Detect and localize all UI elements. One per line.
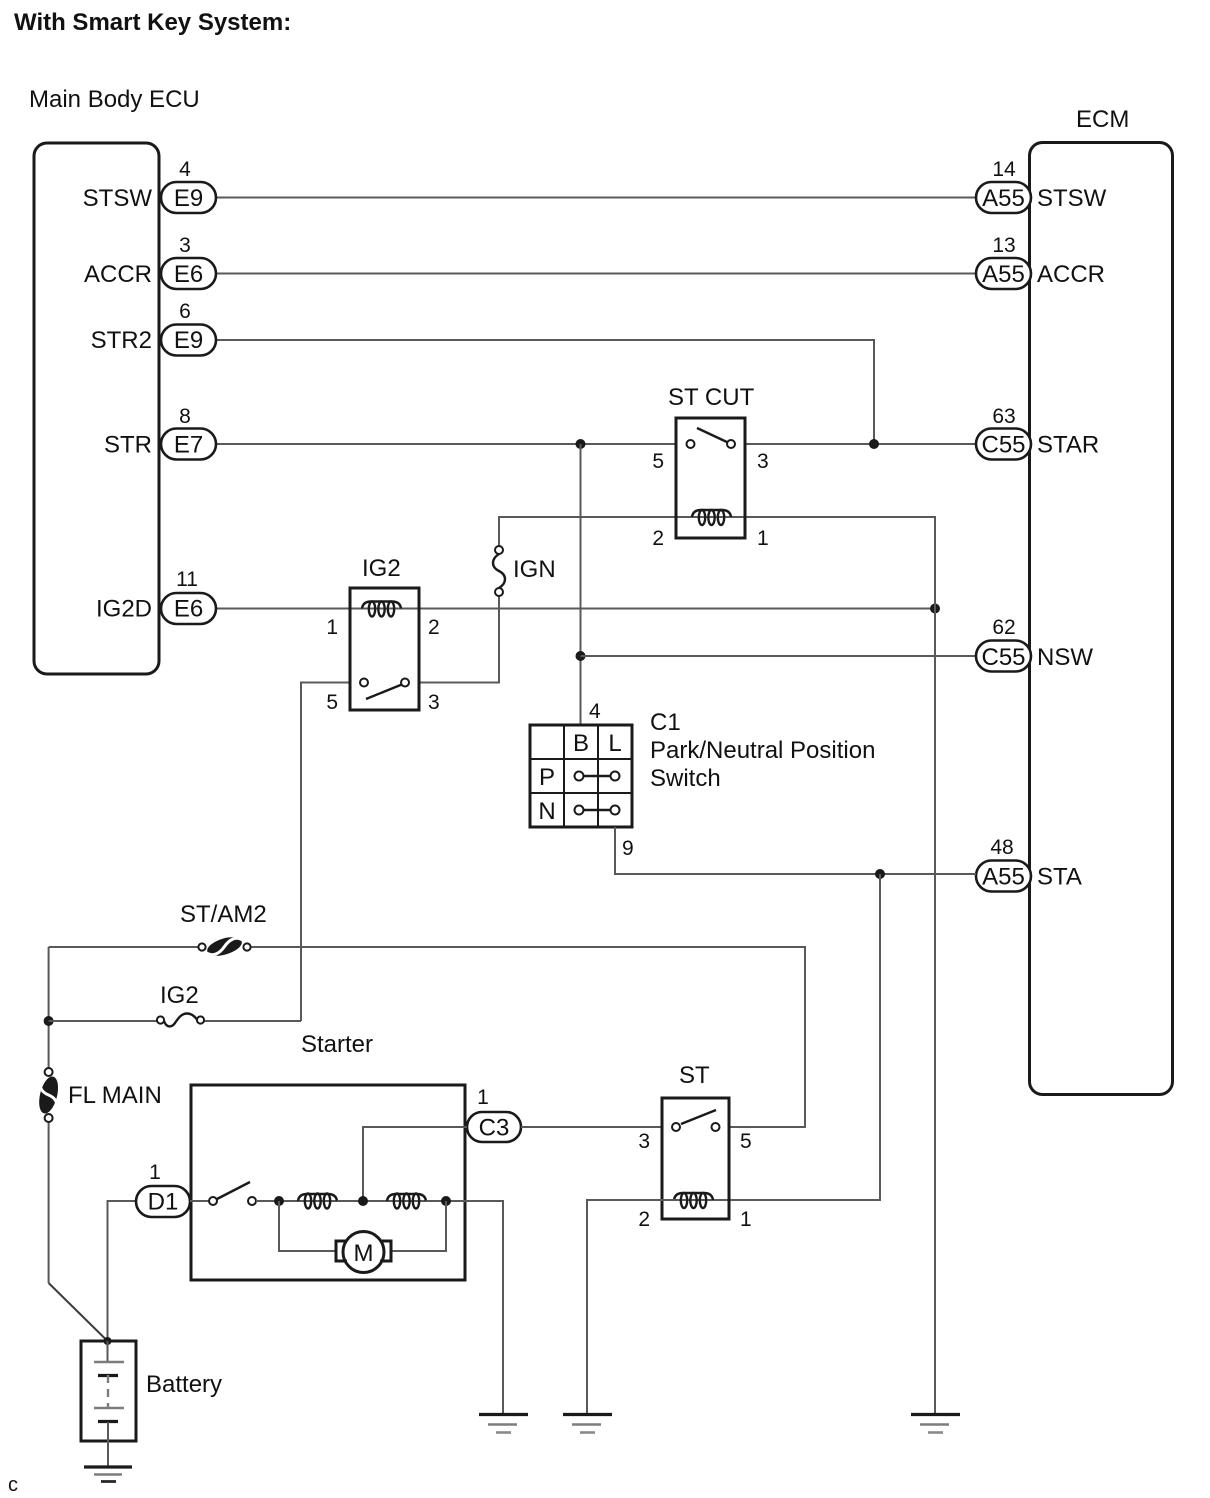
- connector A55 pin 14 STSW: [976, 158, 1107, 213]
- svg-text:IGN: IGN: [513, 556, 556, 583]
- wire C3 into starter: [363, 1127, 467, 1200]
- wire NSW: [581, 655, 977, 657]
- svg-text:IG2: IG2: [160, 982, 199, 1009]
- svg-text:Switch: Switch: [650, 765, 721, 792]
- svg-text:N: N: [538, 798, 555, 825]
- node junction STA / ST coil: [875, 869, 885, 879]
- svg-text:NSW: NSW: [1037, 644, 1093, 671]
- svg-text:3: 3: [638, 1130, 650, 1153]
- wire starter internal: [256, 1200, 298, 1202]
- wire IG2D: [215, 608, 363, 610]
- svg-text:M: M: [354, 1240, 374, 1267]
- svg-text:FL MAIN: FL MAIN: [68, 1082, 162, 1109]
- svg-text:6: 6: [179, 300, 191, 323]
- node junction IG2 fuse tap: [44, 1016, 54, 1026]
- fusible link ST/AM2: [180, 901, 267, 959]
- wire ST/AM2 feed: [49, 946, 198, 948]
- svg-text:IG2D: IG2D: [96, 596, 152, 623]
- wire left battery feed vertical: [48, 947, 50, 1068]
- switch C1 Park/Neutral Position: [530, 700, 875, 860]
- wire starter to ground run: [426, 1201, 503, 1414]
- svg-text:C1: C1: [650, 709, 681, 736]
- svg-text:4: 4: [589, 700, 601, 723]
- svg-text:ECM: ECM: [1076, 106, 1129, 133]
- switch starter contacts: [209, 1182, 256, 1205]
- svg-text:11: 11: [176, 568, 198, 591]
- ground ST relay: [563, 1415, 612, 1433]
- svg-text:9: 9: [622, 837, 634, 860]
- svg-text:With Smart Key System:: With Smart Key System:: [14, 9, 291, 36]
- wire C1 pin9 to STA: [615, 827, 976, 874]
- svg-text:2: 2: [638, 1208, 650, 1231]
- node starter junction 2: [358, 1196, 368, 1206]
- svg-text:c: c: [8, 1474, 18, 1496]
- coil ST: [674, 1193, 713, 1208]
- relay ST: [638, 1062, 751, 1231]
- svg-text:STAR: STAR: [1037, 432, 1099, 459]
- svg-text:L: L: [608, 730, 621, 757]
- svg-text:1: 1: [326, 616, 338, 639]
- svg-text:5: 5: [652, 450, 664, 473]
- wire IG2 fuse run: [49, 1020, 157, 1022]
- svg-text:C55: C55: [981, 644, 1025, 671]
- svg-text:C55: C55: [981, 432, 1025, 459]
- Main Body ECU box: [34, 143, 159, 674]
- svg-text:STSW: STSW: [1037, 185, 1107, 212]
- svg-text:5: 5: [740, 1130, 752, 1153]
- node junction STR/STR2: [869, 439, 879, 449]
- battery: [81, 1341, 222, 1466]
- wire C3 to ST pin3: [521, 1126, 662, 1128]
- relay ST CUT: [652, 384, 768, 550]
- wire ground run from node: [934, 609, 936, 1415]
- svg-text:Main Body ECU: Main Body ECU: [29, 86, 200, 113]
- svg-text:14: 14: [992, 158, 1016, 181]
- wire through IG2 coil: [363, 608, 400, 610]
- ground starter: [479, 1415, 528, 1433]
- coil starter pull-in: [387, 1194, 426, 1209]
- coil IG2: [362, 602, 401, 617]
- relay IG2: [326, 555, 439, 714]
- wire ST CUT coil pin2 to IGN fuse: [499, 517, 692, 546]
- wire STR right: [745, 443, 976, 445]
- svg-text:Park/Neutral Position: Park/Neutral Position: [650, 737, 875, 764]
- svg-text:13: 13: [992, 234, 1015, 257]
- svg-text:E9: E9: [174, 327, 203, 354]
- wire IGN fuse bottom to IG2 pin3: [419, 596, 499, 683]
- ECM box: [1030, 143, 1173, 1095]
- wire FL MAIN lower: [48, 1122, 50, 1283]
- connector E6 pin 3 ACCR: [84, 234, 216, 289]
- svg-text:3: 3: [428, 691, 440, 714]
- svg-text:A55: A55: [982, 185, 1025, 212]
- connector E7 pin 8 STR: [104, 405, 216, 460]
- wire STR left: [216, 443, 676, 445]
- svg-text:8: 8: [179, 405, 191, 428]
- fuse IG2: [157, 982, 204, 1026]
- wire through ST CUT coil: [692, 516, 731, 518]
- wire ST coil pin1 riser: [712, 874, 880, 1200]
- connector A55 pin 13 ACCR: [976, 234, 1105, 289]
- svg-text:B: B: [573, 730, 589, 757]
- svg-text:1: 1: [149, 1161, 161, 1184]
- connector C55 pin 63 STAR: [976, 405, 1099, 460]
- node starter junction 1: [274, 1196, 284, 1206]
- wire STSW: [216, 197, 976, 199]
- svg-text:STA: STA: [1037, 864, 1082, 891]
- node starter junction 3: [441, 1196, 451, 1206]
- wire diagonal to battery: [49, 1283, 107, 1340]
- connector E6 pin 11 IG2D: [96, 568, 216, 624]
- wire ST CUT coil pin1 to node: [731, 517, 935, 609]
- wire ACCR: [216, 273, 976, 275]
- wire through hold-in coil: [298, 1200, 337, 1202]
- svg-text:ACCR: ACCR: [1037, 261, 1105, 288]
- starter box: [191, 1085, 465, 1280]
- svg-text:4: 4: [179, 158, 191, 181]
- connector A55 pin 48 STA: [976, 836, 1082, 892]
- coil starter hold-in: [298, 1194, 337, 1209]
- svg-text:Battery: Battery: [146, 1371, 222, 1398]
- connector E9 pin 6 STR2: [91, 300, 216, 356]
- wire battery positive to D1: [108, 1201, 137, 1340]
- svg-text:C3: C3: [479, 1115, 510, 1142]
- svg-text:E6: E6: [174, 261, 203, 288]
- connector E9 pin 4 STSW: [83, 158, 216, 213]
- svg-text:A55: A55: [982, 261, 1025, 288]
- svg-text:62: 62: [992, 616, 1015, 639]
- wire ST coil pin2 to ground: [587, 1200, 675, 1414]
- node junction IG2D / ST CUT coil: [930, 604, 940, 614]
- wire C1 feed vertical: [580, 444, 582, 725]
- ground ECM side: [911, 1415, 960, 1433]
- svg-text:5: 5: [326, 691, 338, 714]
- svg-text:E9: E9: [174, 185, 203, 212]
- node junction STR/C1: [576, 439, 586, 449]
- svg-text:ST/AM2: ST/AM2: [180, 901, 267, 928]
- motor M: [336, 1232, 391, 1273]
- svg-text:E7: E7: [174, 432, 203, 459]
- svg-text:1: 1: [477, 1086, 489, 1109]
- wire motor branch left: [279, 1201, 336, 1251]
- svg-text:ST: ST: [679, 1062, 710, 1089]
- svg-text:3: 3: [179, 234, 191, 257]
- svg-text:ST CUT: ST CUT: [668, 384, 755, 411]
- wire ST/AM2 to ST relay pin5: [251, 947, 805, 1127]
- svg-text:63: 63: [992, 405, 1015, 428]
- svg-text:STR: STR: [104, 432, 152, 459]
- wire STR2: [216, 340, 874, 444]
- fusible link FL MAIN: [36, 1068, 162, 1122]
- svg-text:1: 1: [757, 527, 769, 550]
- svg-text:P: P: [539, 764, 555, 791]
- wire motor branch right: [391, 1201, 446, 1251]
- svg-text:1: 1: [740, 1208, 752, 1231]
- svg-text:ACCR: ACCR: [84, 261, 152, 288]
- svg-text:2: 2: [652, 527, 664, 550]
- wire starter internal 2: [337, 1200, 387, 1202]
- svg-text:STR2: STR2: [91, 327, 152, 354]
- svg-text:2: 2: [428, 616, 440, 639]
- svg-text:3: 3: [757, 450, 769, 473]
- svg-text:STSW: STSW: [83, 185, 153, 212]
- coil ST CUT: [692, 510, 731, 525]
- connector C3 pin 1: [467, 1086, 521, 1142]
- wire IG2 fuse to IG2 relay: [205, 1020, 302, 1022]
- node battery top: [104, 1337, 112, 1345]
- ground battery: [84, 1467, 132, 1482]
- svg-text:IG2: IG2: [362, 555, 401, 582]
- svg-text:A55: A55: [982, 864, 1025, 891]
- wire through pull-in coil: [387, 1200, 426, 1202]
- svg-text:48: 48: [990, 836, 1013, 859]
- wire IG2D to ST CUT coil return: [400, 608, 935, 610]
- fuse IGN: [493, 546, 556, 596]
- wire through ST coil: [674, 1199, 713, 1201]
- node junction NSW: [576, 651, 586, 661]
- connector C55 pin 62 NSW: [976, 616, 1093, 672]
- wire D1 to starter switch: [190, 1200, 209, 1202]
- wire IG2 pin5 run: [301, 683, 350, 1022]
- svg-text:E6: E6: [174, 596, 203, 623]
- svg-text:D1: D1: [148, 1189, 179, 1216]
- connector D1 pin 1: [136, 1161, 190, 1217]
- svg-text:Starter: Starter: [301, 1031, 373, 1058]
